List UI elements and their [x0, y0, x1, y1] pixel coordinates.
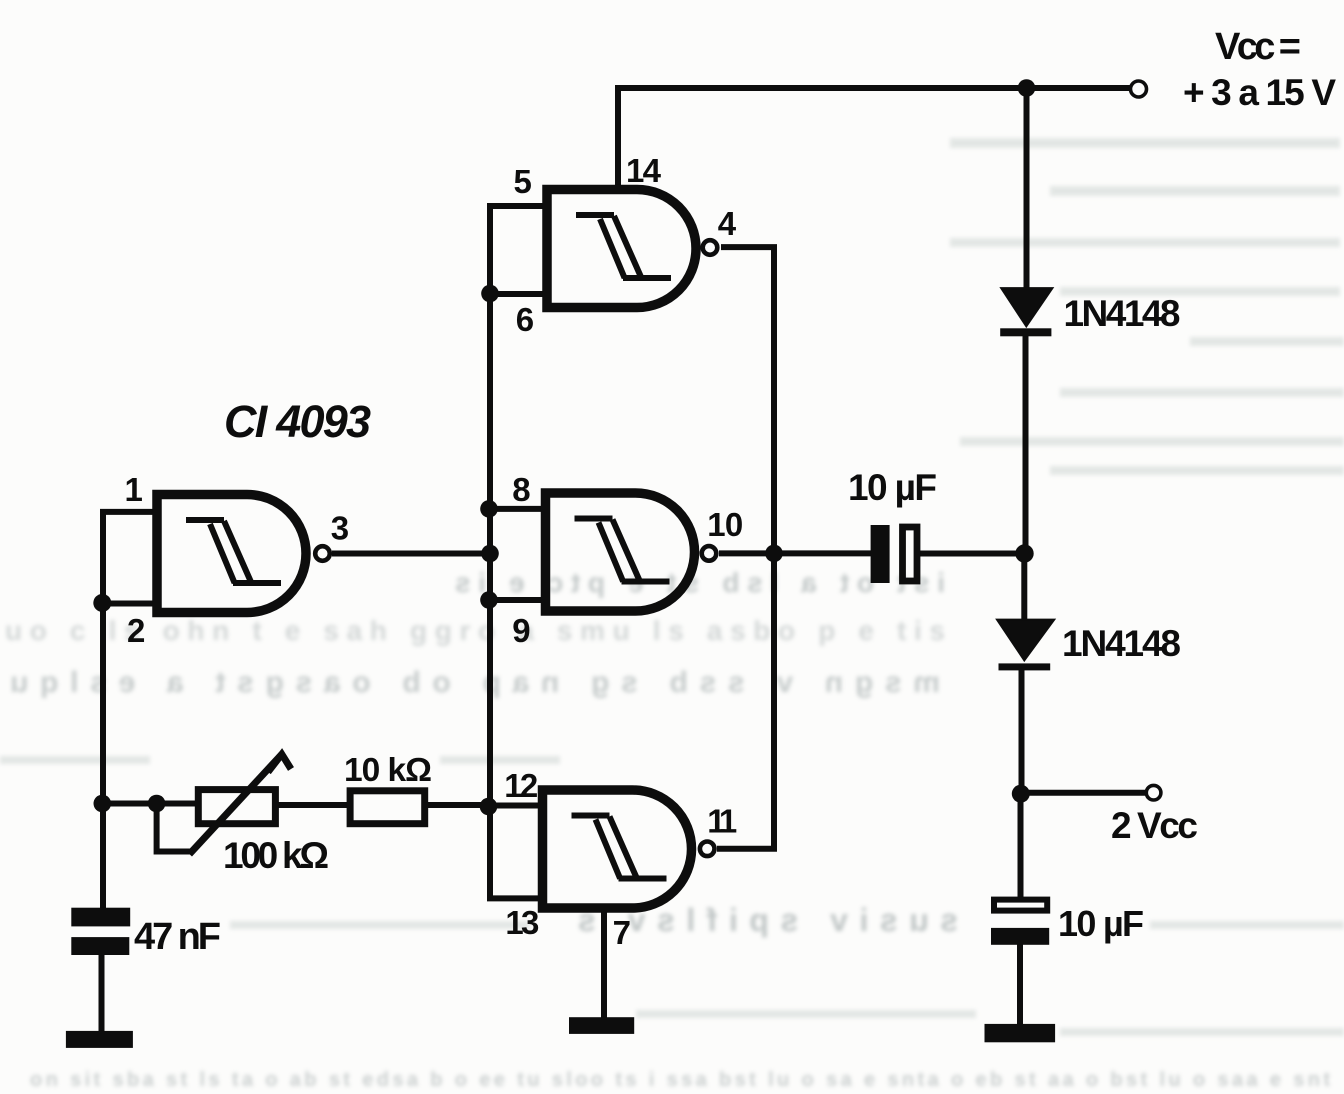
wire capacitor C2 to node C — [920, 551, 1026, 557]
wire diode D2 cathode to node D — [1019, 668, 1025, 795]
wire pin 8 — [490, 506, 547, 512]
gate U1a NAND Schmitt (pins 1,2 -> 3) — [157, 495, 330, 613]
capacitor C1 47nF plates — [71, 908, 130, 955]
svg-text:14: 14 — [626, 152, 662, 189]
svg-text:10 µF: 10 µF — [1058, 903, 1144, 944]
svg-text:2: 2 — [127, 612, 145, 649]
junction trunk / pin 12 — [480, 798, 498, 816]
ground bar (C1) — [66, 1031, 133, 1048]
svg-text:Vcc =: Vcc = — [1215, 26, 1301, 68]
svg-text:3: 3 — [331, 510, 349, 547]
wire left vertical (pins 1,2 to C1) — [100, 509, 106, 908]
gate U1d NAND Schmitt (pins 12,13 -> 11) — [543, 790, 715, 908]
capacitor C3 10uF (output, bottom plate solid) — [991, 900, 1049, 945]
svg-text:msgn v ssb sg nap ob oasgst a: msgn v ssb sg nap ob oasgst a eslqu — [10, 666, 940, 699]
junction R1 wiper tap — [148, 795, 166, 813]
svg-text:6: 6 — [516, 301, 534, 338]
wire pin 6 — [490, 291, 548, 297]
svg-text:13: 13 — [505, 904, 539, 941]
svg-text:CI 4093: CI 4093 — [224, 396, 371, 447]
svg-text:10: 10 — [707, 506, 743, 543]
wire left trunk vertical (gate input bus) — [487, 206, 493, 806]
svg-text:47 nF: 47 nF — [134, 916, 221, 958]
terminal 2Vcc (open circle) — [1146, 785, 1161, 800]
svg-text:2 Vcc: 2 Vcc — [1111, 805, 1198, 846]
ground bar (pin 7) — [569, 1017, 634, 1034]
svg-text:11: 11 — [707, 803, 737, 840]
svg-text:100 kΩ: 100 kΩ — [223, 835, 329, 876]
wire node A to potentiometer R1 — [103, 801, 200, 807]
wire pin 3 output to trunk — [332, 551, 490, 557]
wire pin 4 output down to pin 11 output (node B vertical) — [717, 247, 774, 849]
wire capacitor C3 to ground — [1017, 944, 1023, 1031]
wire R1 to R2 — [274, 802, 352, 808]
svg-text:+ 3 a 15 V: + 3 a 15 V — [1183, 72, 1336, 113]
wire pin 10 output to capacitor C2 — [719, 550, 871, 556]
wire R2 to trunk — [423, 802, 490, 808]
svg-text:7: 7 — [613, 914, 631, 951]
svg-text:on sit sba st ls ta o ab st ed: on sit sba st ls ta o ab st edsa b o ee … — [30, 1069, 1330, 1091]
wire pin 9 — [490, 597, 547, 603]
junction Vcc rail / right rail — [1018, 79, 1036, 97]
svg-text:5: 5 — [514, 163, 532, 200]
wire pin 5 — [487, 203, 548, 209]
gate U1b NAND Schmitt (pins 5,6 -> 4) — [547, 190, 717, 308]
terminal Vcc (open circle) — [1131, 81, 1147, 97]
junction node D (D2, C3, 2Vcc) — [1012, 785, 1030, 803]
svg-text:uo c ls ohn t e sah ggro a smu: uo c ls ohn t e sah ggro a smu ls asbo p… — [5, 615, 945, 646]
wire node C to diode D2 — [1021, 553, 1027, 621]
junction pin 2 / left vertical — [93, 594, 111, 612]
wire pin 2 — [103, 601, 158, 607]
svg-text:10 µF: 10 µF — [848, 467, 937, 508]
wire pin 13 feed — [490, 805, 544, 898]
svg-text:9: 9 — [512, 612, 530, 649]
wire pin 14 to Vcc rail — [615, 85, 621, 192]
diode D1 1N4148 — [1000, 288, 1052, 336]
junction node A (RC node) — [94, 795, 112, 813]
resistor R1 potentiometer 100k — [189, 754, 291, 854]
svg-text:1N4148: 1N4148 — [1064, 293, 1181, 334]
wire pin 7 to ground — [601, 905, 607, 1019]
junction trunk / pin 8 — [480, 500, 498, 518]
diode D2 1N4148 — [997, 620, 1054, 671]
ground bar (C3) — [985, 1024, 1056, 1042]
svg-text:8: 8 — [512, 471, 530, 508]
gate U1c NAND Schmitt (pins 8,9 -> 10) — [546, 493, 717, 611]
wire node D to capacitor C3 — [1018, 794, 1024, 898]
junction node C (D1, D2, C2) — [1015, 544, 1033, 562]
capacitor C2 10uF (coupling, left plate solid) — [871, 525, 917, 583]
svg-text:10 kΩ: 10 kΩ — [344, 752, 432, 789]
wire diode D1 cathode to node C — [1023, 335, 1029, 556]
resistor R2 10k — [350, 791, 425, 824]
svg-text:1N4148: 1N4148 — [1062, 623, 1181, 664]
svg-text:12: 12 — [504, 767, 538, 804]
svg-text:4: 4 — [718, 205, 737, 242]
junction trunk / pin 3 — [481, 545, 499, 563]
wire R1 wiper link — [157, 804, 191, 852]
svg-text:1: 1 — [125, 471, 143, 508]
wire capacitor C1 to ground — [99, 955, 105, 1032]
wire pin 12 — [490, 803, 544, 809]
wire pin 1 — [100, 509, 158, 515]
junction node B (pins 4,10,11 outputs) — [765, 545, 783, 563]
junction trunk / pin 6 — [481, 285, 499, 303]
junction trunk / pin 9 — [480, 591, 498, 609]
wire node D to 2Vcc terminal — [1021, 790, 1145, 796]
wire right rail upper (Vcc to diode D1) — [1024, 88, 1030, 290]
wire top Vcc rail — [618, 85, 1130, 91]
